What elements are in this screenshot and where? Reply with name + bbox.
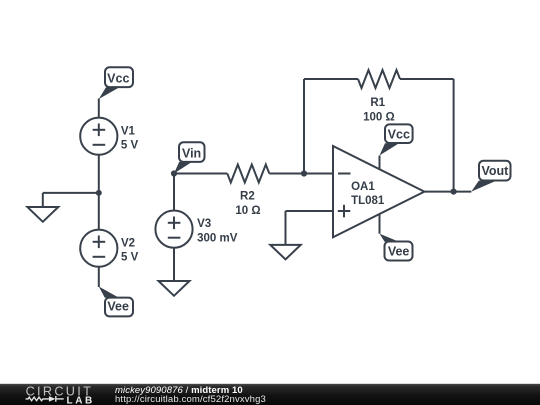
svg-text:5 V: 5 V [121,139,139,151]
svg-text:Vee: Vee [107,299,129,313]
svg-text:OA1: OA1 [351,181,375,193]
svg-text:Vcc: Vcc [107,72,129,86]
svg-text:Vout: Vout [481,164,509,178]
svg-text:5 V: 5 V [121,252,139,264]
svg-text:10 Ω: 10 Ω [235,205,260,217]
svg-text:300 mV: 300 mV [197,233,238,245]
svg-text:Vcc: Vcc [388,127,410,141]
svg-text:LAB: LAB [67,395,95,405]
svg-text:V2: V2 [121,237,135,249]
svg-text:V3: V3 [197,218,211,230]
svg-text:TL081: TL081 [351,195,385,207]
svg-text:V1: V1 [121,125,136,137]
svg-text:http://circuitlab.com/cf52f2nv: http://circuitlab.com/cf52f2nvxvhg3 [115,394,266,405]
svg-text:Vin: Vin [182,147,201,161]
svg-text:R1: R1 [370,97,385,109]
svg-text:R2: R2 [240,191,255,203]
svg-text:100 Ω: 100 Ω [363,111,395,123]
svg-text:Vee: Vee [388,244,410,258]
